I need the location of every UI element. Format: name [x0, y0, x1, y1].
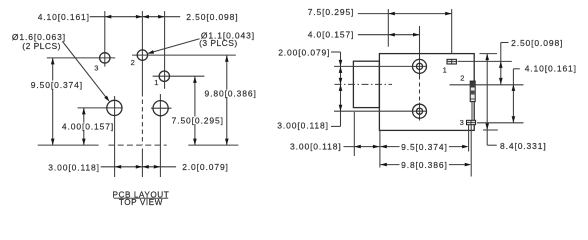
- pin 1: [447, 59, 456, 64]
- svg-text:4.00[0.157]: 4.00[0.157]: [62, 122, 114, 132]
- dimension 9.50[0.374] vertical: [52, 58, 54, 145]
- bottom mounting post: [413, 104, 427, 118]
- extension line hole1 vertical: [164, 11, 166, 89]
- pin2-pin3 connecting edge: [471, 99, 473, 120]
- svg-text:4.10[0.161]: 4.10[0.161]: [38, 12, 90, 22]
- hole 3 row line: [47, 57, 115, 59]
- bottom dimension line: [101, 166, 176, 168]
- arrow right at hole2 extension: [136, 15, 143, 19]
- svg-text:(2 PLCS): (2 PLCS): [22, 41, 61, 51]
- svg-text:(3 PLCS): (3 PLCS): [199, 38, 238, 48]
- 9.8 right extension vertical: [470, 125, 472, 177]
- svg-text:9.5[0.374]: 9.5[0.374]: [401, 142, 448, 152]
- hole 1 row line: [153, 75, 205, 77]
- 7.5 dimension line: [358, 13, 452, 15]
- large hole right circle: [153, 101, 168, 116]
- top dimension line: [90, 16, 181, 18]
- svg-text:4.0[0.157]: 4.0[0.157]: [308, 30, 355, 40]
- barrel outline: [353, 61, 379, 107]
- dimension 4.10[0.161]: [512, 69, 514, 123]
- pin1 row extension line: [458, 60, 512, 62]
- jack body outline: [379, 54, 474, 131]
- body bottom extension right: [483, 129, 498, 131]
- large hole right vertical: [159, 94, 161, 177]
- leader to large hole left: [63, 42, 109, 100]
- top mounting post: [413, 59, 427, 73]
- extension vertical left: [387, 9, 389, 47]
- extension line hole2 vertical: [141, 11, 143, 92]
- svg-text:7.5[0.295]: 7.5[0.295]: [308, 7, 355, 17]
- dimension 7.50[0.295] vertical: [194, 76, 196, 145]
- extension line hole2 below board edge: [141, 149, 143, 178]
- dimension 9.5[0.374]: [380, 146, 463, 148]
- dimension 9.8[0.386]: [380, 164, 465, 166]
- dimension 2.50[0.098]: [500, 43, 502, 85]
- board edge line solid left: [38, 144, 99, 146]
- hole 2 circle: [137, 50, 147, 60]
- large hole right row line: [151, 107, 172, 109]
- large hole left circle: [107, 100, 122, 115]
- pin3 row extension line: [477, 122, 524, 124]
- dimension 8.4[0.331]: [486, 54, 488, 146]
- svg-text:3: 3: [460, 118, 464, 127]
- board edge line dashed center: [109, 144, 167, 146]
- svg-text:7.50[0.295]: 7.50[0.295]: [172, 116, 224, 126]
- dimension 9.80[0.386] vertical: [226, 55, 228, 145]
- svg-text:9.50[0.374]: 9.50[0.374]: [31, 80, 83, 90]
- pin 3: [467, 120, 476, 124]
- barrel left extension vertical: [353, 112, 355, 156]
- svg-text:TOP VIEW: TOP VIEW: [119, 198, 163, 207]
- svg-text:3: 3: [94, 63, 98, 72]
- svg-text:3.00[0.118]: 3.00[0.118]: [290, 141, 342, 151]
- 9.5 right extension vertical: [468, 125, 470, 152]
- hole 1 circle: [159, 71, 169, 81]
- svg-text:1: 1: [443, 66, 447, 75]
- extension line hole3 vertical: [104, 11, 106, 67]
- centerline hole2 vertical dashed: [141, 92, 143, 145]
- extension vertical right (pin1 center): [451, 9, 453, 54]
- svg-text:9.8[0.386]: 9.8[0.386]: [401, 160, 448, 170]
- pin2 row extension line: [450, 84, 524, 86]
- svg-text:2: 2: [460, 74, 464, 83]
- svg-text:2.50[0.098]: 2.50[0.098]: [186, 12, 238, 22]
- top post row line: [334, 65, 427, 67]
- arrow left at hole2 extension (2.50 dim): [142, 15, 149, 19]
- hole 3 circle: [100, 53, 110, 63]
- arrow right at hole1 extension: [158, 15, 165, 19]
- large hole left row line: [78, 107, 123, 109]
- hole 2 row line: [132, 54, 236, 56]
- left dim stack vertical: [340, 52, 342, 126]
- 4.0 dimension line: [358, 34, 420, 36]
- board edge line solid right: [188, 144, 238, 146]
- svg-text:2.50[0.098]: 2.50[0.098]: [511, 38, 563, 48]
- barrel centerline dash-dot: [335, 83, 393, 85]
- svg-text:2.00[0.079]: 2.00[0.079]: [278, 47, 330, 57]
- leader to hole 2: [149, 39, 200, 53]
- bottom post row line: [334, 110, 427, 112]
- dimension 4.00[0.157] vertical: [83, 108, 85, 145]
- pin 2: [470, 81, 475, 102]
- svg-text:2.0[0.079]: 2.0[0.079]: [182, 162, 229, 172]
- svg-text:4.10[0.161]: 4.10[0.161]: [525, 64, 577, 74]
- svg-text:9.80[0.386]: 9.80[0.386]: [205, 89, 257, 99]
- svg-text:1: 1: [154, 78, 158, 87]
- body top extension right: [480, 53, 498, 55]
- svg-text:3.00[0.118]: 3.00[0.118]: [277, 120, 329, 130]
- svg-text:8.4[0.331]: 8.4[0.331]: [500, 141, 547, 151]
- body left extension vertical: [379, 130, 381, 167]
- svg-text:3.00[0.118]: 3.00[0.118]: [48, 163, 100, 173]
- large hole left vertical: [114, 96, 116, 177]
- arrow left at hole3 extension: [105, 15, 112, 19]
- post centerline vertical: [419, 26, 421, 76]
- svg-text:2: 2: [131, 58, 135, 67]
- bottom arrows: [115, 165, 122, 169]
